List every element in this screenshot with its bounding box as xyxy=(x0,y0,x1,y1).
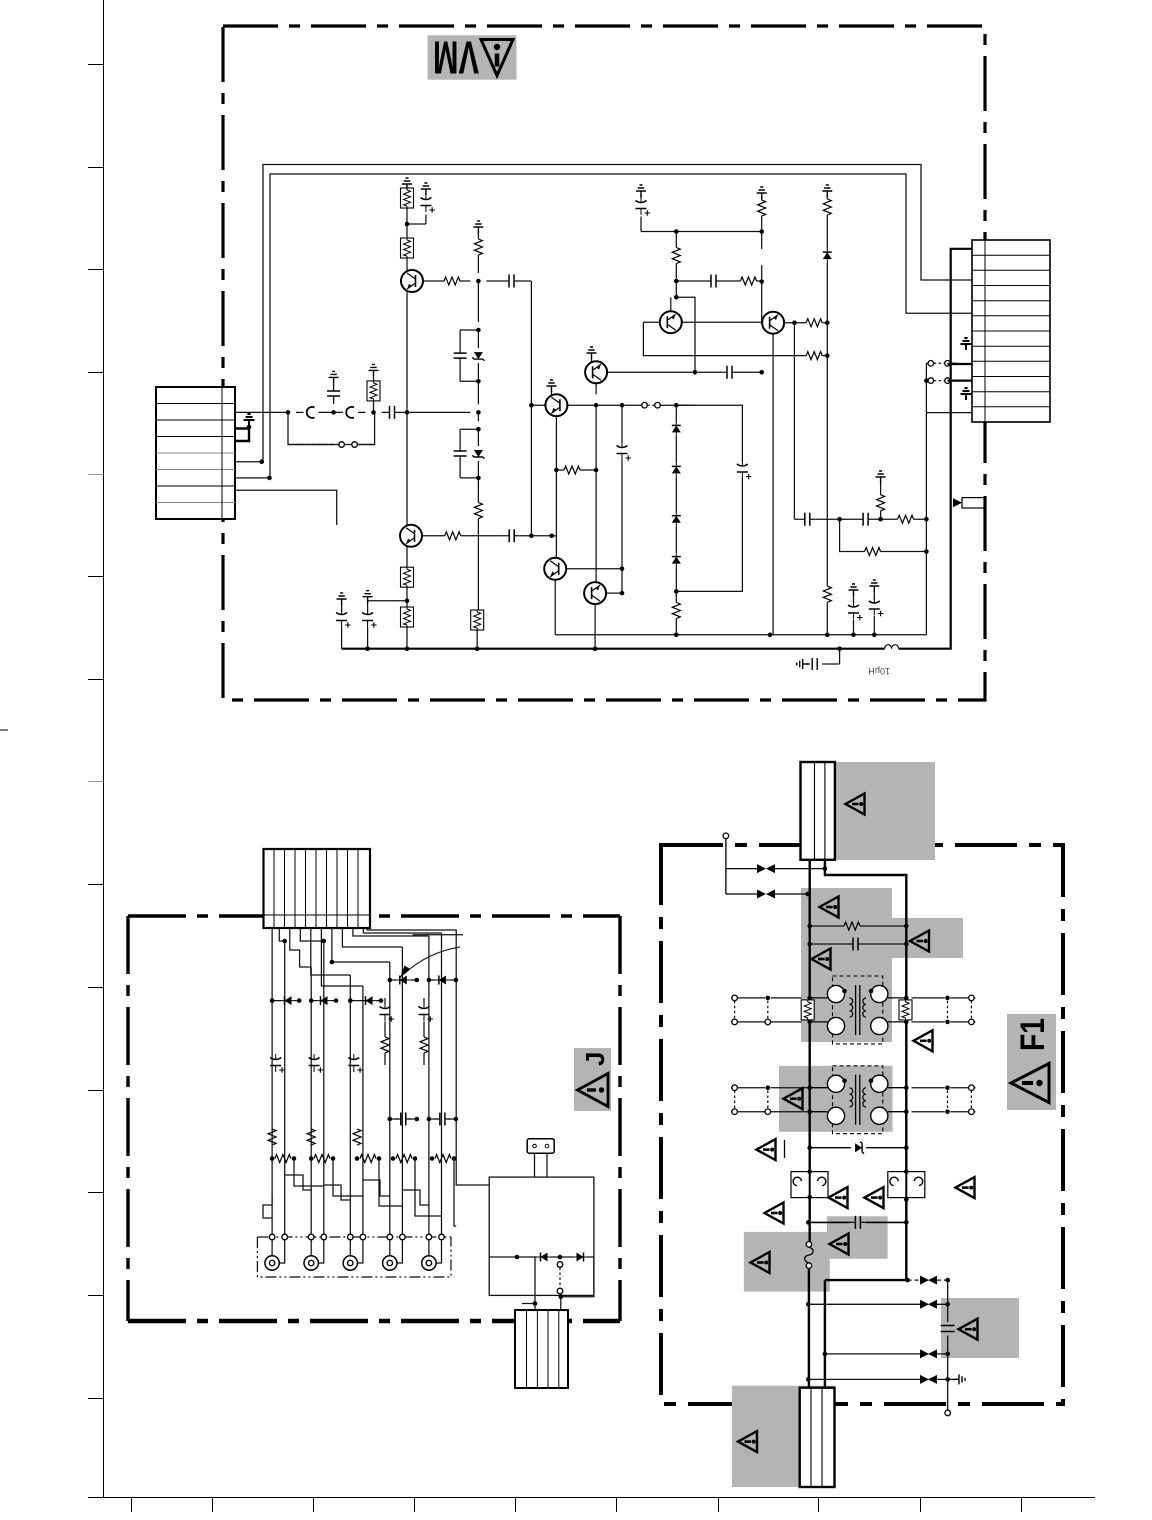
svg-text:F1: F1 xyxy=(1014,1018,1052,1051)
svg-text:J: J xyxy=(580,1052,610,1066)
svg-text:10μH: 10μH xyxy=(868,666,890,676)
svg-text:VM: VM xyxy=(433,32,479,84)
